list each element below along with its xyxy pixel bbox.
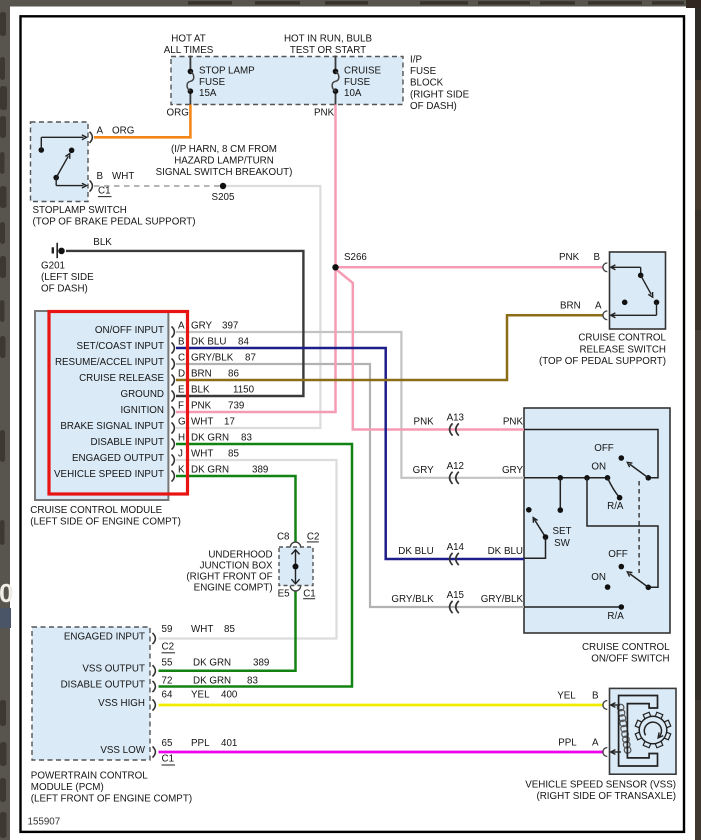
label hot at all times [164, 34, 214, 56]
caption powertrain control module [31, 771, 192, 805]
svg-text:PNK: PNK [314, 108, 335, 119]
ground G201 [53, 243, 65, 258]
cruise control module box U1 [35, 311, 168, 500]
wire BRN 86 module pin D to release switch pin A [176, 315, 603, 380]
svg-text:ON: ON [591, 572, 606, 583]
wire GRY/BLK 87 module pin C to A15 [176, 364, 524, 607]
svg-text:ENGAGED INPUT: ENGAGED INPUT [64, 631, 145, 642]
svg-text:A15: A15 [447, 590, 465, 601]
svg-text:YEL: YEL [191, 690, 210, 701]
svg-text:DK GRN: DK GRN [191, 433, 229, 444]
wire ORG fuse 1 to stoplamp pin A [94, 105, 190, 138]
svg-text:CRUISE CONTROL: CRUISE CONTROL [578, 333, 666, 344]
svg-text:B: B [178, 337, 185, 348]
stoplamp pin A connector [90, 132, 93, 143]
connector A13 PNK [414, 413, 524, 436]
svg-text:A: A [97, 126, 104, 137]
stoplamp pin B connector C1 [90, 180, 112, 196]
svg-text:B: B [594, 252, 601, 263]
svg-text:R/A: R/A [607, 501, 624, 512]
wire PNK S266 to release switch pin B [336, 266, 604, 269]
svg-text:R/A: R/A [607, 611, 624, 622]
svg-text:WHT: WHT [191, 417, 213, 428]
cruise control release switch box [610, 252, 666, 329]
VSS reluctor gear [635, 712, 671, 748]
module pin A GRY 397 ON/OFF INPUT [95, 321, 238, 338]
PCM pin 55 DK GRN 389 VSS OUTPUT [82, 658, 269, 677]
svg-text:E5: E5 [278, 589, 291, 600]
diagram number 155907 [28, 816, 61, 827]
wire PNK fuse 2 to S266 [334, 105, 337, 268]
PCM pin 72 DK GRN 83 DISABLE OUTPUT [61, 676, 259, 693]
caption underhood junction box [186, 549, 273, 593]
svg-text:GROUND: GROUND [120, 389, 164, 400]
label R/A switch 2 [607, 611, 624, 622]
wire DK GRN 83 module pin H to PCM pin 72 [159, 444, 353, 687]
svg-text:FUSE: FUSE [410, 66, 437, 77]
svg-text:CRUISE CONTROL: CRUISE CONTROL [582, 642, 670, 653]
svg-text:D: D [178, 369, 185, 380]
svg-text:PNK: PNK [503, 417, 524, 428]
svg-text:DK GRN: DK GRN [193, 676, 231, 687]
module pin B DK BLU 84 SET/COAST INPUT [77, 337, 250, 354]
svg-text:VEHICLE SPEED INPUT: VEHICLE SPEED INPUT [54, 469, 164, 480]
label ORG [167, 108, 189, 119]
svg-text:RELEASE SWITCH: RELEASE SWITCH [579, 344, 666, 355]
svg-text:389: 389 [253, 658, 269, 669]
svg-text:HOT IN RUN, BULB: HOT IN RUN, BULB [284, 34, 372, 45]
svg-text:IGNITION: IGNITION [120, 405, 164, 416]
svg-text:S266: S266 [344, 252, 367, 263]
on/off switch 1 stub contact [558, 478, 564, 513]
svg-text:ENGINE COMPT): ENGINE COMPT) [194, 582, 273, 593]
underhood junction box [279, 547, 313, 586]
svg-text:SW: SW [554, 538, 571, 549]
set switch SET SW [524, 507, 548, 558]
svg-text:(LEFT SIDE: (LEFT SIDE [41, 272, 94, 283]
svg-text:A13: A13 [447, 413, 465, 424]
wire BLK 1150 G201 to module pin E [66, 251, 303, 396]
caption stoplamp switch [33, 205, 196, 228]
connector A12 GRY [413, 461, 524, 484]
svg-text:VEHICLE SPEED SENSOR (VSS): VEHICLE SPEED SENSOR (VSS) [525, 780, 676, 791]
label PPL A at VSS [558, 738, 599, 749]
svg-text:J: J [178, 449, 183, 460]
svg-text:G: G [178, 417, 186, 428]
svg-text:A: A [592, 738, 599, 749]
VSS magnetic core [619, 696, 658, 767]
wire WHT stoplamp B to S205 dashed [94, 185, 223, 187]
svg-text:(RIGHT SIDE OF TRANSAXLE): (RIGHT SIDE OF TRANSAXLE) [536, 791, 676, 802]
module pin E BLK 1150 GROUND [120, 385, 254, 402]
svg-text:MODULE (PCM): MODULE (PCM) [31, 782, 104, 793]
release switch contacts and arm [611, 265, 660, 318]
PCM pin 64 YEL 400 VSS HIGH [98, 690, 238, 711]
powertrain control module PCM box [32, 627, 150, 760]
svg-text:72: 72 [162, 676, 173, 687]
svg-text:(TOP OF PEDAL SUPPORT): (TOP OF PEDAL SUPPORT) [539, 356, 666, 367]
caption cruise control module [30, 505, 181, 528]
caption cruise control on/off switch [582, 642, 670, 664]
svg-text:ON/OFF SWITCH: ON/OFF SWITCH [591, 653, 669, 664]
stoplamp switch box [31, 122, 89, 202]
mechanical link dashed [638, 481, 640, 573]
svg-text:CRUISE: CRUISE [344, 66, 381, 77]
svg-text:DK BLU: DK BLU [398, 546, 433, 557]
svg-text:A: A [595, 300, 602, 311]
svg-text:155907: 155907 [28, 816, 61, 827]
svg-text:DISABLE OUTPUT: DISABLE OUTPUT [61, 679, 145, 690]
svg-text:RESUME/ACCEL INPUT: RESUME/ACCEL INPUT [55, 357, 164, 368]
VSS pin B connector [603, 701, 607, 710]
label OFF switch 1 [594, 443, 614, 454]
svg-text:HOT AT: HOT AT [171, 34, 205, 45]
I/P fuse block box [171, 57, 403, 105]
junction box internal arrow [291, 550, 299, 584]
wire DK GRN 389 junction box to PCM pin 55 [159, 591, 296, 671]
svg-text:389: 389 [252, 465, 268, 476]
VSS pin A connector [603, 748, 607, 757]
svg-text:K: K [178, 465, 185, 476]
label cruise fuse 10A [344, 66, 381, 100]
module pin G WHT 17 BRAKE SIGNAL INPUT [60, 417, 235, 434]
svg-text:C1: C1 [162, 754, 175, 765]
svg-text:17: 17 [224, 417, 235, 428]
cruise control on/off switch box [524, 408, 670, 633]
wire DK BLU 84 module pin B to A14 [176, 348, 524, 559]
connector A14 DK BLU [398, 542, 523, 565]
svg-text:15A: 15A [199, 88, 217, 99]
svg-text:(LEFT FRONT OF ENGINE COMPT): (LEFT FRONT OF ENGINE COMPT) [31, 794, 192, 805]
wire YEL 400 PCM pin 64 to VSS pin B [159, 704, 604, 707]
svg-text:CRUISE RELEASE: CRUISE RELEASE [79, 373, 164, 384]
svg-text:OFF: OFF [594, 443, 614, 454]
fuse stop lamp 15A [187, 56, 194, 105]
svg-text:A14: A14 [447, 542, 465, 553]
svg-text:S205: S205 [212, 192, 235, 203]
svg-text:C1: C1 [98, 185, 111, 196]
svg-text:SET: SET [552, 526, 571, 537]
svg-text:HAZARD LAMP/TURN: HAZARD LAMP/TURN [174, 156, 274, 167]
svg-text:55: 55 [162, 658, 173, 669]
label R/A switch 1 [607, 501, 624, 512]
fuse cruise 10A [332, 56, 339, 105]
svg-text:BRAKE SIGNAL INPUT: BRAKE SIGNAL INPUT [60, 421, 164, 432]
svg-text:GRY/BLK: GRY/BLK [191, 353, 234, 364]
svg-text:WHT: WHT [191, 449, 213, 460]
wire DK GRN 389 module pin K to junction box [176, 476, 296, 542]
svg-text:VSS HIGH: VSS HIGH [98, 698, 145, 709]
module pin K DK GRN 389 VEHICLE SPEED INPUT [54, 465, 268, 482]
PCM pin 59 WHT 85 ENGAGED INPUT [64, 624, 236, 644]
svg-text:86: 86 [228, 369, 239, 380]
label hot in run bulb test or start [284, 34, 372, 56]
svg-text:UNDERHOOD: UNDERHOOD [208, 549, 272, 560]
svg-text:BLK: BLK [93, 237, 112, 248]
svg-text:(RIGHT FRONT OF: (RIGHT FRONT OF [186, 571, 272, 582]
svg-text:GRY/BLK: GRY/BLK [481, 594, 524, 605]
wire WHT 85 module pin J to PCM pin 59 [159, 460, 337, 639]
wire PNK 739 S266 to module pin F [176, 267, 336, 412]
svg-text:DK GRN: DK GRN [191, 465, 229, 476]
svg-text:739: 739 [228, 401, 244, 412]
svg-text:85: 85 [224, 624, 235, 635]
svg-text:A12: A12 [447, 461, 464, 472]
splice S205 [212, 183, 235, 203]
svg-text:E: E [178, 385, 185, 396]
svg-text:VSS OUTPUT: VSS OUTPUT [82, 664, 145, 675]
label SET SW [552, 526, 571, 549]
svg-text:BLOCK: BLOCK [410, 78, 444, 89]
svg-text:POWERTRAIN CONTROL: POWERTRAIN CONTROL [31, 771, 148, 782]
svg-text:PNK: PNK [414, 417, 435, 428]
svg-text:PNK: PNK [559, 252, 580, 263]
svg-text:(RIGHT SIDE: (RIGHT SIDE [410, 89, 470, 100]
svg-text:ORG: ORG [112, 126, 134, 137]
on/off switch 2 pivot and arm [619, 564, 652, 590]
svg-text:PNK: PNK [191, 401, 212, 412]
junction box connector E5/C1 bottom [278, 586, 316, 600]
VSS pickup coil [611, 703, 631, 755]
red highlight around cruise control module [49, 312, 188, 495]
svg-text:FUSE: FUSE [199, 77, 226, 88]
svg-text:GRY: GRY [191, 321, 213, 332]
svg-text:ALL TIMES: ALL TIMES [164, 45, 214, 56]
svg-text:10A: 10A [344, 88, 362, 99]
svg-text:85: 85 [228, 449, 239, 460]
label ON switch 1 [591, 461, 606, 472]
svg-text:401: 401 [221, 738, 237, 749]
svg-text:OFF: OFF [608, 549, 628, 560]
svg-text:400: 400 [221, 690, 238, 701]
svg-text:VSS LOW: VSS LOW [100, 745, 145, 756]
svg-text:DK GRN: DK GRN [193, 658, 231, 669]
svg-text:A: A [178, 321, 185, 332]
svg-text:ON: ON [591, 461, 606, 472]
on/off switch link to switch 2 [587, 478, 658, 588]
svg-text:64: 64 [162, 690, 173, 701]
on/off switch 1 pivot and arm [619, 455, 652, 480]
svg-text:GRY/BLK: GRY/BLK [391, 594, 434, 605]
svg-text:B: B [592, 691, 599, 702]
svg-text:PPL: PPL [558, 738, 577, 749]
svg-text:DISABLE INPUT: DISABLE INPUT [91, 437, 165, 448]
label ON switch 2 [591, 572, 606, 583]
svg-text:C: C [178, 353, 185, 364]
svg-text:59: 59 [162, 624, 173, 635]
splice S266 [332, 252, 367, 270]
on/off switch 2 R/A line [524, 604, 624, 610]
label PNK [314, 108, 335, 119]
svg-text:84: 84 [238, 337, 249, 348]
caption G201 [41, 261, 94, 295]
label I/P harness note [156, 144, 293, 178]
svg-text:SET/COAST INPUT: SET/COAST INPUT [77, 341, 164, 352]
wire PNK S266 branch to A13 [336, 269, 525, 430]
svg-text:(LEFT SIDE OF ENGINE COMPT): (LEFT SIDE OF ENGINE COMPT) [30, 516, 181, 527]
on/off switch internal PNK feed line [524, 430, 658, 478]
svg-text:WHT: WHT [191, 624, 213, 635]
svg-text:BRN: BRN [191, 369, 212, 380]
label YEL B at VSS [557, 691, 599, 702]
svg-text:BRN: BRN [560, 300, 581, 311]
caption cruise control release switch [539, 333, 667, 367]
label PNK B at release switch [559, 252, 601, 263]
svg-text:ENGAGED OUTPUT: ENGAGED OUTPUT [72, 453, 164, 464]
svg-text:YEL: YEL [557, 691, 576, 702]
label pin A ORG [97, 126, 135, 137]
svg-text:FUSE: FUSE [344, 77, 371, 88]
svg-text:C1: C1 [303, 589, 316, 600]
svg-text:DK BLU: DK BLU [191, 337, 226, 348]
svg-text:ON/OFF INPUT: ON/OFF INPUT [95, 325, 164, 336]
svg-text:83: 83 [241, 433, 252, 444]
svg-text:TEST OR START: TEST OR START [290, 45, 366, 56]
vehicle speed sensor box [610, 688, 677, 774]
svg-text:I/P: I/P [410, 55, 422, 66]
label BLK [93, 237, 112, 248]
release switch pin A connector [603, 311, 607, 320]
svg-text:1150: 1150 [233, 385, 255, 396]
PCM connector C1 label [162, 754, 176, 765]
on/off switch 1 ON bus [524, 475, 610, 481]
stoplamp switch contacts and arm [39, 135, 87, 188]
wire PPL 401 PCM pin 65 to VSS pin A [159, 751, 604, 754]
svg-text:STOPLAMP SWITCH: STOPLAMP SWITCH [33, 205, 127, 216]
module pin C GRY/BLK 87 RESUME/ACCEL INPUT [55, 353, 256, 370]
PCM pin 65 PPL 401 VSS LOW [100, 738, 237, 758]
label BRN A at release switch [560, 300, 602, 311]
PCM connector C2 label [162, 642, 176, 653]
wire GRY 397 module pin A to A12 [176, 332, 524, 478]
svg-text:G201: G201 [41, 261, 65, 272]
junction box connector C8/C2 top [277, 532, 319, 548]
caption vehicle speed sensor [525, 780, 676, 802]
svg-text:BLK: BLK [191, 385, 210, 396]
svg-text:B: B [97, 171, 104, 182]
svg-text:ORG: ORG [167, 108, 189, 119]
svg-text:H: H [178, 433, 185, 444]
svg-text:(TOP OF BRAKE PEDAL SUPPORT): (TOP OF BRAKE PEDAL SUPPORT) [33, 217, 196, 228]
svg-text:C2: C2 [307, 532, 320, 543]
release switch pin B connector [603, 263, 607, 272]
module pin H DK GRN 83 DISABLE INPUT [91, 433, 253, 450]
label OFF switch 2 [608, 549, 628, 560]
svg-text:65: 65 [162, 738, 173, 749]
svg-text:GRY: GRY [502, 465, 524, 476]
svg-text:CRUISE CONTROL MODULE: CRUISE CONTROL MODULE [30, 505, 162, 516]
svg-text:F: F [178, 401, 184, 412]
wire WHT 17 S205 to module pin G [176, 186, 320, 428]
label I/P fuse block [410, 55, 470, 113]
svg-text:PPL: PPL [191, 738, 210, 749]
module pin F PNK 739 IGNITION [120, 401, 244, 418]
svg-text:STOP LAMP: STOP LAMP [199, 66, 255, 77]
svg-text:OF DASH): OF DASH) [41, 283, 88, 294]
svg-text:0: 0 [0, 578, 13, 608]
module pin J WHT 85 ENGAGED OUTPUT [72, 449, 239, 466]
on/off switch 1 R/A contact [608, 478, 623, 501]
connector A15 GRY/BLK [391, 590, 523, 613]
svg-text:C8: C8 [277, 532, 290, 543]
svg-text:397: 397 [222, 321, 238, 332]
on/off switch 2 ON contact [605, 584, 611, 590]
svg-text:JUNCTION BOX: JUNCTION BOX [200, 560, 273, 571]
svg-text:(I/P HARN, 8 CM FROM: (I/P HARN, 8 CM FROM [171, 144, 277, 155]
label stop lamp fuse 15A [199, 66, 255, 100]
svg-text:83: 83 [247, 676, 258, 687]
svg-text:GRY: GRY [413, 465, 435, 476]
svg-text:SIGNAL SWITCH BREAKOUT): SIGNAL SWITCH BREAKOUT) [156, 167, 293, 178]
svg-text:87: 87 [245, 353, 256, 364]
label pin B WHT [97, 171, 135, 182]
svg-text:OF DASH): OF DASH) [410, 101, 457, 112]
svg-text:C2: C2 [162, 642, 175, 653]
svg-text:WHT: WHT [112, 171, 134, 182]
module pin D BRN 86 CRUISE RELEASE [79, 369, 239, 386]
svg-text:DK BLU: DK BLU [488, 546, 523, 557]
